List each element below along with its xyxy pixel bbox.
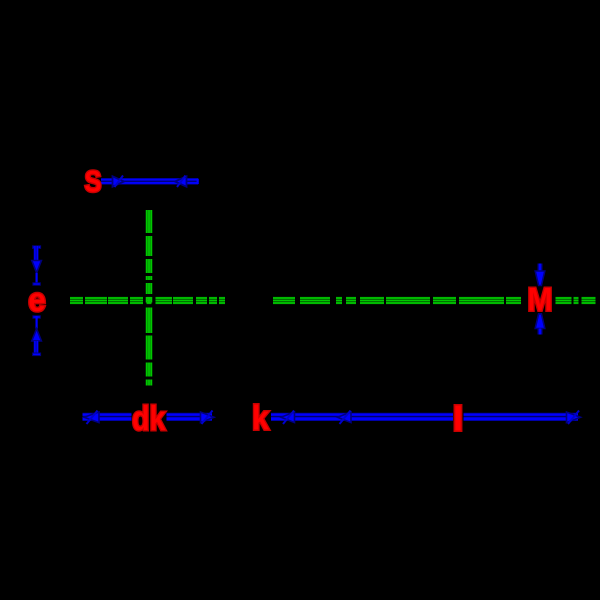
svg-text:M: M [528, 282, 553, 318]
svg-text:l: l [453, 401, 464, 439]
svg-text:e: e [28, 281, 46, 318]
svg-text:dk: dk [132, 400, 166, 438]
svg-text:S: S [85, 166, 102, 199]
svg-text:k: k [252, 400, 269, 438]
